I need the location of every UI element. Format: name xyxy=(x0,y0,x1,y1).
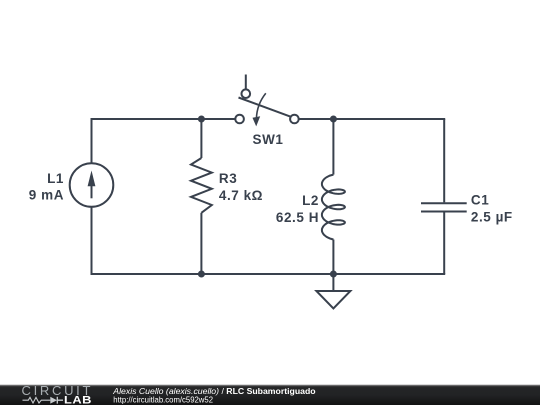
wire top left segment xyxy=(91,118,236,120)
footer attribution line 1 xyxy=(112,386,315,396)
label SW1 xyxy=(253,132,284,147)
svg-text:LAB: LAB xyxy=(64,393,92,405)
wire C1 top stub xyxy=(443,119,445,202)
inductor L2 xyxy=(322,175,345,240)
value label 62.5 H xyxy=(276,210,319,225)
svg-text:62.5 H: 62.5 H xyxy=(276,210,319,225)
svg-text:SW1: SW1 xyxy=(253,132,284,147)
label L1 xyxy=(47,171,64,186)
svg-text:http://circuitlab.com/c592w52: http://circuitlab.com/c592w52 xyxy=(113,395,213,404)
label R3 xyxy=(219,171,237,186)
svg-text:9 mA: 9 mA xyxy=(29,188,64,203)
value label 4.7 kOhm xyxy=(219,188,263,203)
svg-text:C1: C1 xyxy=(471,193,489,208)
CircuitLab logo diode xyxy=(50,397,63,404)
wire R3 top stub xyxy=(200,119,202,158)
label C1 xyxy=(471,193,489,208)
CircuitLab logo wordmark LAB xyxy=(64,393,92,405)
node junction L2 top xyxy=(330,116,337,123)
node junction ground xyxy=(330,271,337,278)
ground xyxy=(316,274,350,309)
wire R3 bottom stub xyxy=(200,213,202,274)
wire bottom rail xyxy=(91,273,446,275)
svg-text:2.5 µF: 2.5 µF xyxy=(471,210,513,225)
wire top right segment xyxy=(299,118,446,120)
capacitor C1 xyxy=(421,203,467,211)
current source L1 xyxy=(70,163,114,207)
wire L2 top stub xyxy=(332,119,334,175)
CircuitLab logo wordmark CIRCUIT xyxy=(22,383,94,398)
wire left rail top xyxy=(91,119,93,163)
label L2 xyxy=(302,193,319,208)
wire C1 bottom stub xyxy=(443,212,445,274)
svg-text:L1: L1 xyxy=(47,171,64,186)
node junction R3 bottom xyxy=(198,271,205,278)
resistor R3 xyxy=(191,158,212,213)
footer url line 2 xyxy=(113,395,213,404)
switch SW1 xyxy=(235,75,298,127)
wire left rail bottom xyxy=(91,207,93,274)
svg-text:L2: L2 xyxy=(302,193,319,208)
wire L2 bottom stub xyxy=(332,240,334,275)
CircuitLab logo resistor squiggle xyxy=(23,397,51,403)
value label 9 mA xyxy=(29,188,64,203)
node junction R3 top xyxy=(198,116,205,123)
footer bar xyxy=(0,385,540,405)
svg-text:R3: R3 xyxy=(219,171,237,186)
svg-text:4.7 kΩ: 4.7 kΩ xyxy=(219,188,263,203)
value label 2.5 uF xyxy=(471,210,513,225)
